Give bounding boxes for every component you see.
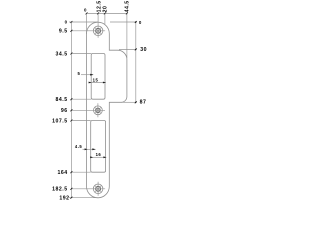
svg-text:0: 0 [65, 19, 68, 24]
screw hole bottom [93, 184, 103, 194]
svg-text:4.5: 4.5 [75, 144, 82, 149]
extension line to top dim 44.5 (lip outer edge) [126, 13, 128, 58]
strike plate outline with latch lip [87, 22, 127, 198]
extension line 0 (plate top, right) [110, 21, 136, 23]
top horizontal dimension line [87, 12, 127, 14]
svg-text:107.5: 107.5 [52, 118, 67, 124]
extension line 9.5 (top hole centre) [71, 30, 105, 32]
tick 20 [104, 12, 106, 14]
tick 164 [70, 171, 72, 173]
tick 87 [135, 101, 137, 103]
dimension line 4.5 [83, 148, 96, 150]
extension line 182.5 (bottom hole centre) [71, 188, 105, 190]
arrow dim 4.5 left [85, 148, 88, 150]
crosshair bottom hole [97, 182, 99, 196]
left vertical dimension line [70, 22, 72, 198]
latch cutout [91, 54, 105, 100]
svg-text:16: 16 [96, 152, 102, 157]
dimension line 15 [89, 82, 106, 84]
extension line 107.5 (deadbolt cutout top) [71, 120, 90, 122]
dimension line 16 [91, 156, 107, 158]
svg-text:164: 164 [57, 170, 67, 176]
svg-text:84.5: 84.5 [55, 97, 67, 103]
extension line 0 (plate top, left) [69, 21, 98, 23]
svg-text:34.5: 34.5 [55, 51, 67, 57]
tick 44.5 [126, 12, 128, 14]
crosshair middle hole [97, 103, 99, 117]
tick 0 top [86, 12, 88, 14]
tick 30 [135, 48, 137, 50]
right vertical dimension line [135, 22, 137, 102]
deadbolt cutout [91, 121, 106, 173]
dot 87 [135, 102, 136, 103]
arrow dim 15 left [89, 82, 92, 84]
svg-text:9.5: 9.5 [59, 29, 68, 35]
dimension line 5 [81, 74, 93, 76]
tick 0 left [70, 21, 72, 23]
tick 0 right [135, 21, 137, 23]
arrow dim 5 [90, 74, 93, 76]
svg-text:12.5: 12.5 [96, 0, 102, 12]
dot 0 right [135, 21, 136, 22]
arrow dim 15 right [103, 82, 106, 84]
extension line 164 (deadbolt cutout bottom) [71, 171, 90, 173]
crosshair top hole [97, 24, 99, 38]
tick 34.5 [70, 53, 72, 55]
tick 96 [70, 109, 72, 111]
svg-text:30: 30 [140, 47, 147, 53]
tick 107.5 [70, 120, 72, 122]
arrow dim 4.5 right [92, 148, 95, 150]
extension line to top dim (plate left edge) [86, 13, 88, 34]
svg-text:87: 87 [140, 100, 147, 106]
screw hole middle [94, 106, 103, 115]
svg-text:96: 96 [61, 108, 68, 114]
extension line to top dim 20 (cutout right edge) [104, 13, 106, 25]
tick 9.5 [70, 30, 72, 32]
arrow dim 16 left [90, 156, 93, 158]
extension line 84.5 (latch cutout bottom) [71, 98, 91, 100]
arrow dim 16 right [103, 156, 106, 158]
tick 192 [70, 197, 72, 199]
svg-text:20: 20 [102, 6, 108, 13]
svg-text:15: 15 [93, 78, 99, 83]
tick 182.5 [70, 188, 72, 190]
svg-text:44.5: 44.5 [124, 0, 130, 12]
svg-text:192: 192 [59, 196, 69, 201]
extension line 34.5 (latch cutout top) [71, 53, 91, 55]
extension line 96 (middle hole centre) [71, 109, 105, 111]
svg-text:182.5: 182.5 [52, 187, 67, 193]
screw hole top [93, 26, 103, 36]
extension line 192 (plate bottom) [69, 197, 98, 199]
extension line 30 (lip top) [119, 48, 136, 50]
dot 30 [135, 49, 136, 50]
svg-text:5: 5 [77, 71, 80, 76]
tick 84.5 [70, 98, 72, 100]
svg-text:0: 0 [84, 8, 87, 13]
extension line to top dim 12.5 (hole centreline) [97, 13, 99, 23]
extension line 87 (lip bottom) [121, 101, 136, 103]
tick 12.5 [97, 12, 99, 14]
svg-text:0: 0 [139, 20, 142, 25]
